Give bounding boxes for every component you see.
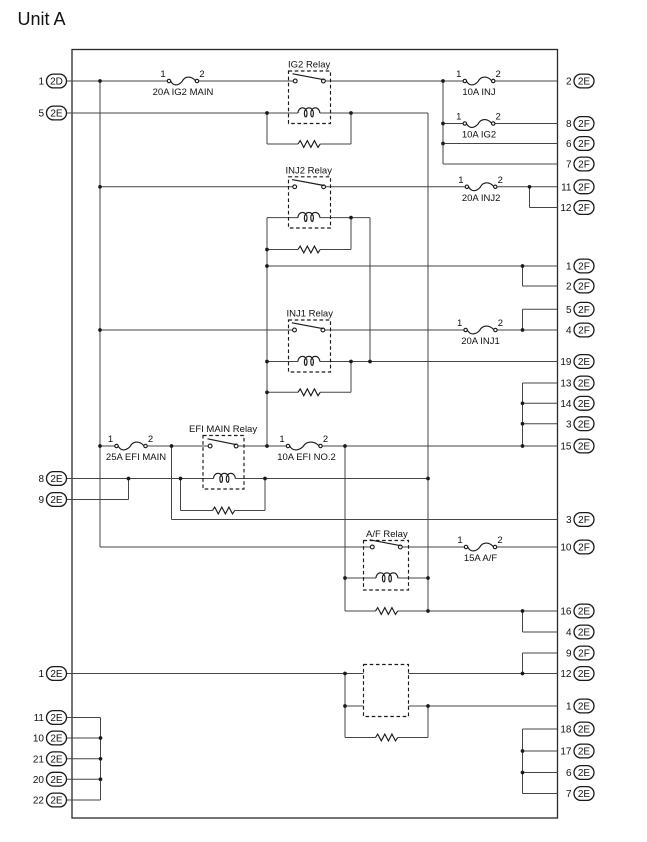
svg-text:A/F Relay: A/F Relay xyxy=(366,529,408,540)
svg-text:12: 12 xyxy=(560,203,572,214)
svg-text:2: 2 xyxy=(496,112,501,123)
svg-text:1: 1 xyxy=(566,702,572,713)
svg-text:2E: 2E xyxy=(578,768,591,779)
svg-text:2D: 2D xyxy=(50,77,63,88)
svg-text:15: 15 xyxy=(560,442,572,453)
svg-text:2F: 2F xyxy=(578,139,590,150)
svg-text:2E: 2E xyxy=(50,796,63,807)
svg-text:22: 22 xyxy=(33,796,45,807)
svg-text:Unit A: Unit A xyxy=(18,9,66,29)
svg-text:2E: 2E xyxy=(50,669,63,680)
svg-text:2E: 2E xyxy=(578,399,591,410)
svg-text:5: 5 xyxy=(566,305,572,316)
svg-text:10: 10 xyxy=(33,734,45,745)
svg-text:2E: 2E xyxy=(50,109,63,120)
svg-text:11: 11 xyxy=(561,182,572,193)
svg-text:1: 1 xyxy=(160,69,165,80)
svg-text:2E: 2E xyxy=(578,419,591,430)
svg-text:2E: 2E xyxy=(578,357,591,368)
svg-text:1: 1 xyxy=(38,669,44,680)
svg-text:2E: 2E xyxy=(578,669,591,680)
svg-text:2E: 2E xyxy=(578,747,591,758)
svg-text:20A IG2 MAIN: 20A IG2 MAIN xyxy=(153,87,214,98)
svg-text:2: 2 xyxy=(199,69,204,80)
svg-text:2E: 2E xyxy=(578,702,591,713)
svg-text:2: 2 xyxy=(498,175,503,186)
svg-text:14: 14 xyxy=(560,399,572,410)
svg-text:2: 2 xyxy=(497,535,502,546)
svg-text:1: 1 xyxy=(457,318,462,329)
svg-text:15A A/F: 15A A/F xyxy=(464,553,497,564)
svg-text:2E: 2E xyxy=(50,713,63,724)
svg-text:2E: 2E xyxy=(50,754,63,765)
svg-text:2F: 2F xyxy=(578,305,590,316)
svg-text:EFI MAIN Relay: EFI MAIN Relay xyxy=(189,424,257,435)
svg-text:INJ2 Relay: INJ2 Relay xyxy=(286,165,333,176)
svg-text:10A INJ: 10A INJ xyxy=(462,87,496,98)
svg-text:1: 1 xyxy=(458,175,463,186)
svg-text:17: 17 xyxy=(560,747,572,758)
svg-text:6: 6 xyxy=(566,139,572,150)
svg-text:9: 9 xyxy=(38,495,44,506)
svg-text:4: 4 xyxy=(566,326,572,337)
svg-text:2E: 2E xyxy=(50,775,63,786)
svg-text:3: 3 xyxy=(566,419,572,430)
svg-text:2F: 2F xyxy=(578,326,590,337)
svg-text:1: 1 xyxy=(456,69,461,80)
svg-text:11: 11 xyxy=(34,713,45,724)
svg-text:IG2 Relay: IG2 Relay xyxy=(288,60,330,71)
svg-text:2E: 2E xyxy=(578,379,591,390)
svg-text:8: 8 xyxy=(566,119,572,130)
svg-text:2F: 2F xyxy=(578,543,590,554)
svg-text:20: 20 xyxy=(33,775,45,786)
svg-text:1: 1 xyxy=(38,77,44,88)
svg-text:3: 3 xyxy=(566,515,572,526)
svg-text:20A INJ2: 20A INJ2 xyxy=(462,193,501,204)
svg-text:2: 2 xyxy=(148,434,153,445)
svg-text:1: 1 xyxy=(566,262,572,273)
svg-text:2: 2 xyxy=(566,77,572,88)
svg-text:4: 4 xyxy=(566,628,572,639)
svg-text:12: 12 xyxy=(560,669,572,680)
svg-text:1: 1 xyxy=(457,535,462,546)
svg-text:19: 19 xyxy=(560,357,572,368)
svg-text:2F: 2F xyxy=(578,182,590,193)
svg-text:1: 1 xyxy=(279,434,284,445)
svg-text:8: 8 xyxy=(38,474,44,485)
svg-text:9: 9 xyxy=(566,649,572,660)
svg-text:2F: 2F xyxy=(578,262,590,273)
svg-text:10: 10 xyxy=(560,543,572,554)
svg-text:2E: 2E xyxy=(50,474,63,485)
svg-text:2F: 2F xyxy=(578,119,590,130)
svg-text:13: 13 xyxy=(560,379,572,390)
svg-text:2F: 2F xyxy=(578,203,590,214)
svg-text:7: 7 xyxy=(566,160,572,171)
svg-text:2E: 2E xyxy=(578,77,591,88)
svg-text:2E: 2E xyxy=(578,442,591,453)
svg-text:1: 1 xyxy=(108,434,113,445)
svg-text:2: 2 xyxy=(566,282,572,293)
svg-text:2E: 2E xyxy=(50,734,63,745)
svg-text:16: 16 xyxy=(560,607,572,618)
svg-text:2F: 2F xyxy=(578,160,590,171)
svg-text:2F: 2F xyxy=(578,515,590,526)
svg-text:2E: 2E xyxy=(578,628,591,639)
svg-text:2F: 2F xyxy=(578,649,590,660)
svg-text:25A EFI MAIN: 25A EFI MAIN xyxy=(106,452,166,463)
svg-text:6: 6 xyxy=(566,768,572,779)
svg-text:2F: 2F xyxy=(578,282,590,293)
svg-text:2E: 2E xyxy=(578,607,591,618)
svg-text:10A IG2: 10A IG2 xyxy=(462,130,496,141)
svg-text:2E: 2E xyxy=(50,495,63,506)
svg-text:7: 7 xyxy=(566,789,572,800)
svg-text:2E: 2E xyxy=(578,789,591,800)
svg-text:2: 2 xyxy=(323,434,328,445)
svg-text:20A INJ1: 20A INJ1 xyxy=(461,336,500,347)
svg-text:2: 2 xyxy=(496,69,501,80)
svg-text:INJ1 Relay: INJ1 Relay xyxy=(287,309,334,320)
svg-text:2E: 2E xyxy=(578,725,591,736)
svg-text:10A EFI NO.2: 10A EFI NO.2 xyxy=(277,452,336,463)
svg-text:21: 21 xyxy=(33,754,45,765)
svg-text:5: 5 xyxy=(38,109,44,120)
svg-text:18: 18 xyxy=(560,725,572,736)
svg-text:1: 1 xyxy=(456,112,461,123)
svg-text:2: 2 xyxy=(498,318,503,329)
